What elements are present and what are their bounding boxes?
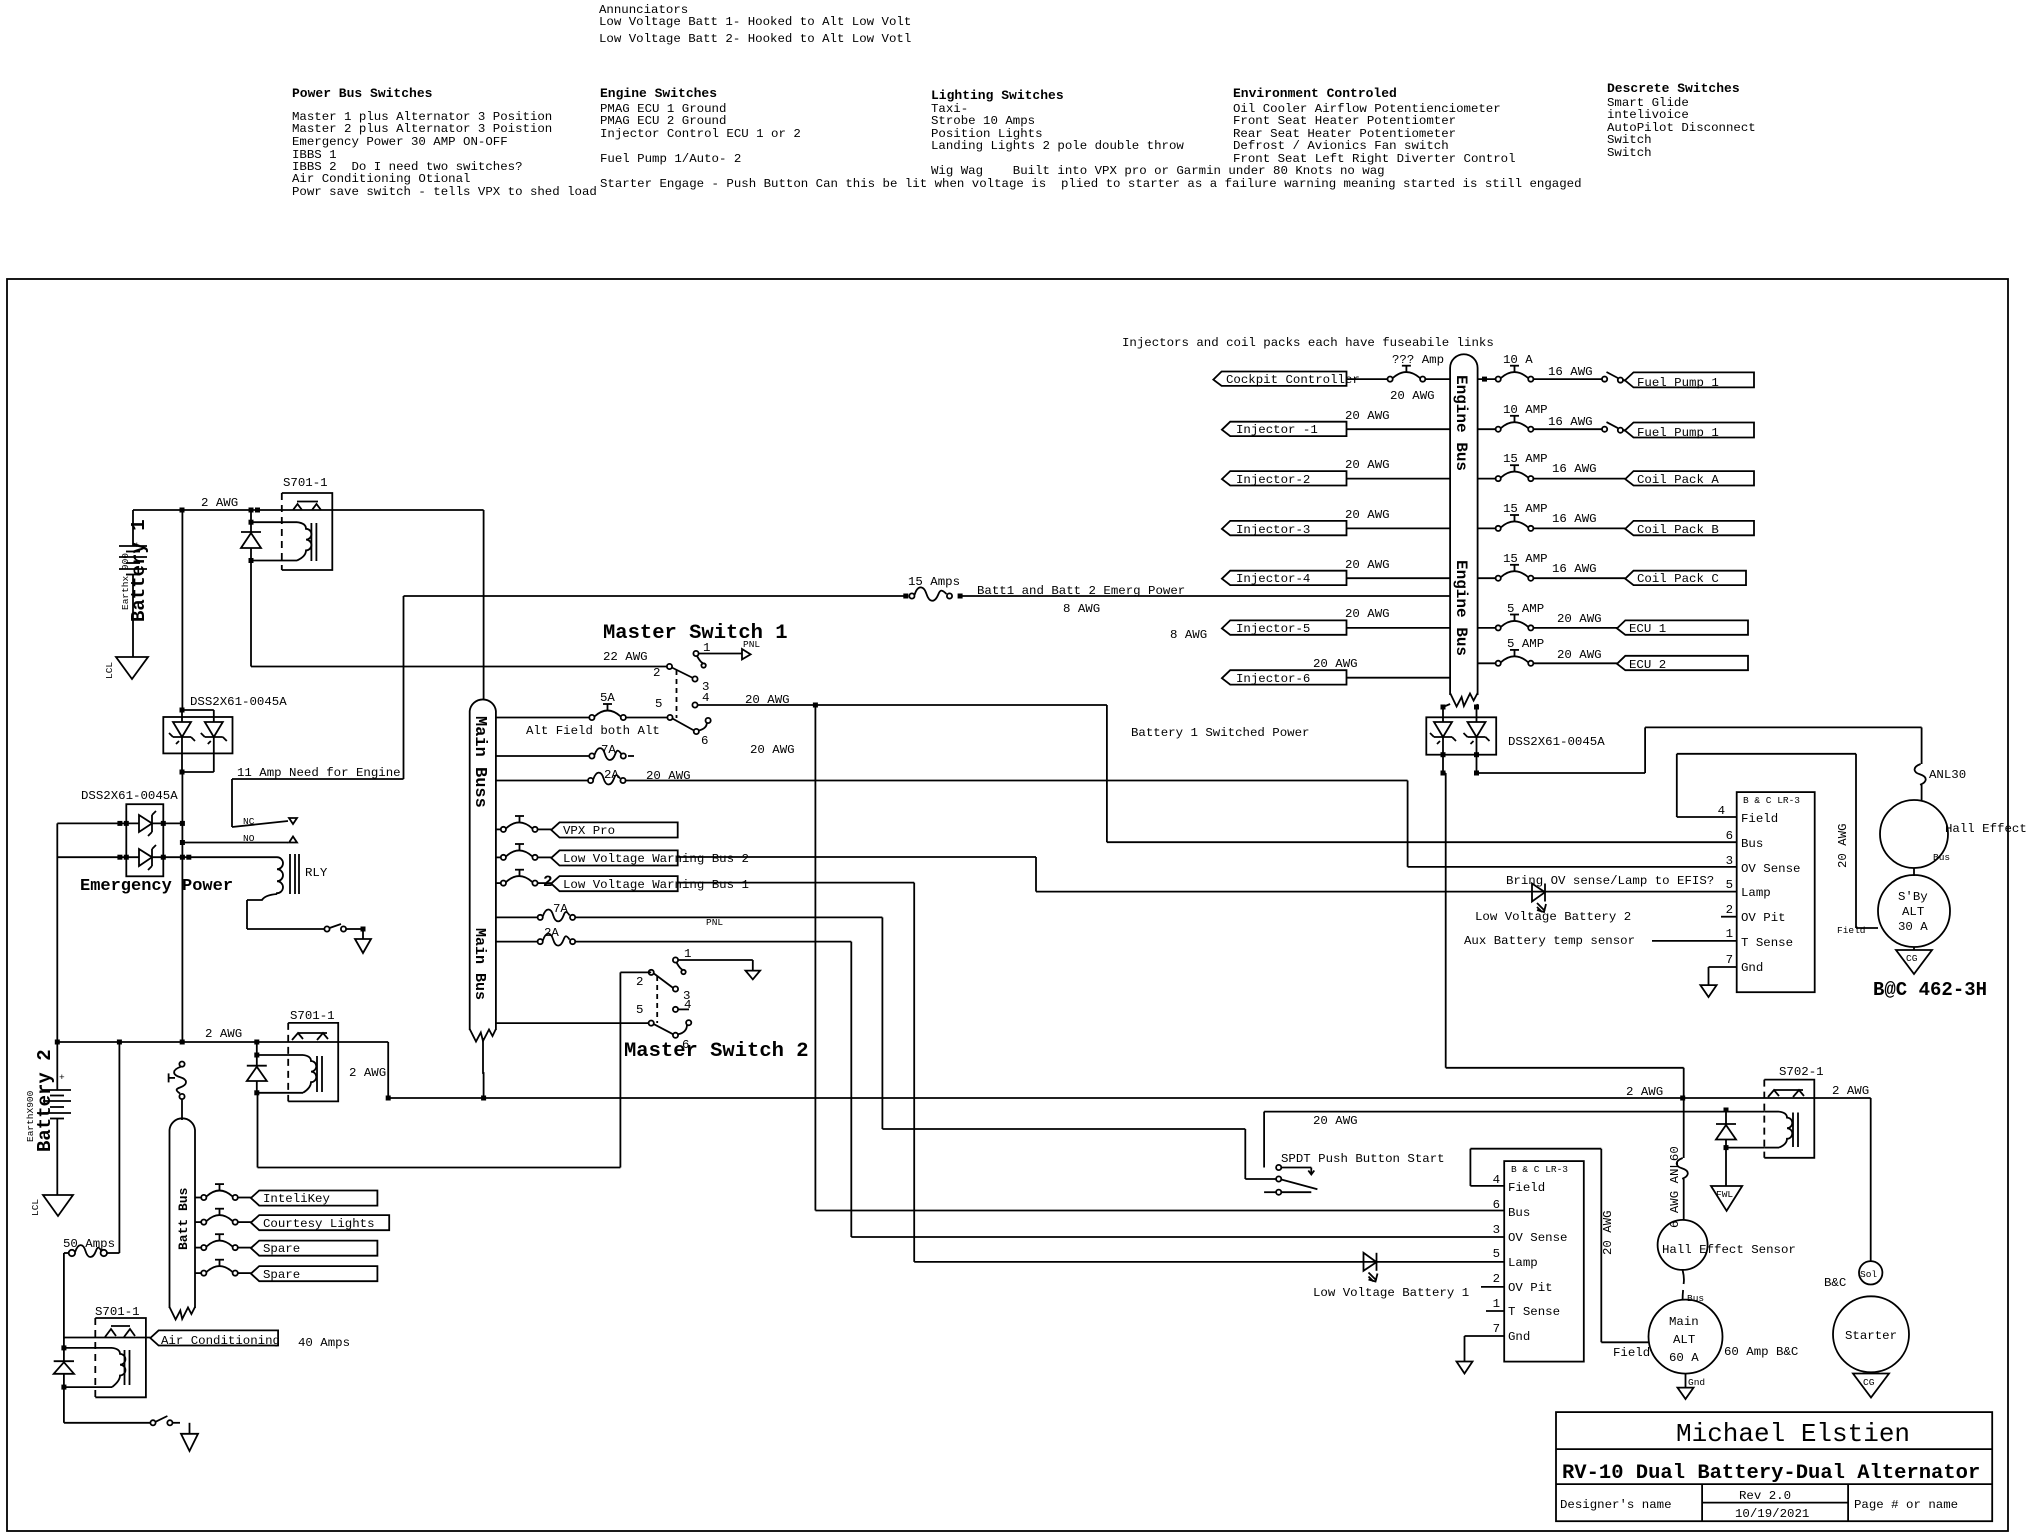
wire Main Buss top feed bbox=[483, 510, 485, 700]
svg-text:5: 5 bbox=[1493, 1247, 1500, 1261]
svg-text:5 AMP: 5 AMP bbox=[1507, 602, 1544, 616]
svg-text:Low Voltage Warning Bus 1: Low Voltage Warning Bus 1 bbox=[563, 878, 749, 892]
svg-text:10 A: 10 A bbox=[1503, 353, 1533, 367]
regulator U1 B & C LR-3 (upper) bbox=[1652, 792, 1815, 992]
flag Spare 2 bbox=[251, 1266, 378, 1282]
wire LR-3 #1 Field to S'By ALT Field bbox=[1677, 754, 1878, 928]
note column Descrete Switches bbox=[1607, 81, 1756, 160]
contactor S702-1 bbox=[1726, 1065, 1869, 1158]
note column Environment Controled bbox=[1233, 86, 1516, 166]
svg-text:Front Seat Left Right Diverter: Front Seat Left Right Diverter Control bbox=[1233, 152, 1516, 166]
flag Courtesy Lights bbox=[251, 1215, 389, 1231]
svg-text:Injector -1: Injector -1 bbox=[1236, 423, 1318, 437]
diode FWL (across S702 coil) bbox=[1716, 1108, 1736, 1187]
svg-text:Low Voltage Warning Bus 2: Low Voltage Warning Bus 2 bbox=[563, 852, 749, 866]
svg-text:Field: Field bbox=[1508, 1181, 1545, 1195]
svg-text:Hall Effect Sensor: Hall Effect Sensor bbox=[1662, 1243, 1796, 1257]
svg-text:Wig Wag Built into VPX pro: Wig Wag Built into VPX pro or Garmin und… bbox=[931, 164, 1385, 178]
svg-text:CG: CG bbox=[1906, 953, 1918, 964]
svg-text:Fuel Pump 1: Fuel Pump 1 bbox=[1637, 426, 1719, 440]
svg-text:6: 6 bbox=[682, 1038, 689, 1052]
wire Hall to S'By ALT Bus bbox=[1914, 852, 1950, 876]
svg-text:6: 6 bbox=[1726, 829, 1733, 843]
svg-text:+: + bbox=[59, 1072, 65, 1083]
svg-text:Low Voltage Batt 1- Hooked to: Low Voltage Batt 1- Hooked to Alt Low Vo… bbox=[599, 15, 911, 29]
svg-text:20 AWG: 20 AWG bbox=[1557, 612, 1602, 626]
svg-text:2 AWG: 2 AWG bbox=[1626, 1085, 1663, 1099]
svg-text:Environment Controled: Environment Controled bbox=[1233, 86, 1397, 101]
svg-text:Field: Field bbox=[1741, 812, 1778, 826]
svg-text:4: 4 bbox=[1718, 804, 1725, 818]
svg-text:20 AWG: 20 AWG bbox=[1345, 508, 1390, 522]
starter solenoid Sol bbox=[1824, 1261, 1882, 1290]
svg-text:20 AWG: 20 AWG bbox=[1557, 648, 1602, 662]
svg-text:2: 2 bbox=[1493, 1272, 1500, 1286]
svg-text:20 AWG: 20 AWG bbox=[1313, 657, 1358, 671]
svg-text:Bus: Bus bbox=[1741, 837, 1763, 851]
svg-text:Air Conditioning Otional: Air Conditioning Otional bbox=[292, 172, 470, 186]
flag Low Voltage Warning Bus 2 bbox=[551, 850, 749, 866]
breaker Spare 1 bbox=[195, 1234, 251, 1250]
svg-text:5A: 5A bbox=[600, 691, 615, 705]
flag Spare 1 bbox=[251, 1241, 378, 1256]
svg-text:Spare: Spare bbox=[263, 1242, 300, 1256]
wire SPDT to S702 coil bbox=[1264, 1112, 1764, 1168]
svg-text:Lighting Switches: Lighting Switches bbox=[931, 88, 1064, 103]
svg-text:CG: CG bbox=[1863, 1377, 1875, 1388]
ground LCL under battery 2 bbox=[30, 1195, 73, 1216]
wire LVW2 to upper LR-3 Lamp bbox=[678, 857, 1737, 892]
svg-text:2: 2 bbox=[543, 873, 553, 891]
diode across S701-1 (battery 2) coil bbox=[247, 1042, 267, 1095]
wire battery1 bus riser bbox=[181, 510, 183, 710]
svg-text:Injector Control ECU 1 or 2: Injector Control ECU 1 or 2 bbox=[600, 127, 801, 141]
ground (Main ALT) bbox=[1678, 1374, 1706, 1399]
ground (RLY switch) bbox=[355, 929, 371, 953]
svg-text:Alt Field both Alt: Alt Field both Alt bbox=[526, 724, 660, 738]
svg-text:B & C LR-3: B & C LR-3 bbox=[1743, 795, 1800, 806]
relay contact NC/NO (emergency power relay) bbox=[180, 816, 297, 845]
wire 22 AWG to Master Switch 1 pin2 bbox=[251, 650, 667, 667]
svg-text:InteliKey: InteliKey bbox=[263, 1192, 330, 1206]
svg-text:16 AWG: 16 AWG bbox=[1548, 415, 1593, 429]
diode across S701-1 coil bbox=[241, 510, 261, 667]
fuse 2A (to OV Sense upper) bbox=[496, 768, 1736, 867]
svg-text:Coil Pack B: Coil Pack B bbox=[1637, 523, 1719, 537]
svg-text:3: 3 bbox=[1726, 854, 1733, 868]
svg-text:Batt Bus: Batt Bus bbox=[176, 1187, 191, 1250]
ground FWL bbox=[1711, 1186, 1742, 1211]
svg-text:2 AWG: 2 AWG bbox=[349, 1066, 386, 1080]
svg-text:Battery 1 Switched Power: Battery 1 Switched Power bbox=[1131, 726, 1309, 740]
svg-text:Engine Bus: Engine Bus bbox=[1452, 375, 1470, 471]
svg-text:Injector-6: Injector-6 bbox=[1236, 672, 1310, 686]
flag Injector-2 bbox=[1222, 458, 1450, 487]
svg-text:7: 7 bbox=[1493, 1322, 1500, 1336]
zener pair DSS2X61-0045A (battery 1 feed) bbox=[163, 695, 287, 775]
breaker Low Voltage Warning Bus 1 bbox=[496, 870, 553, 891]
svg-text:4: 4 bbox=[702, 691, 709, 705]
breaker 5 AMP / flag ECU 2 bbox=[1478, 637, 1748, 672]
svg-text:Gnd: Gnd bbox=[1741, 961, 1763, 975]
svg-text:7A: 7A bbox=[553, 902, 568, 916]
svg-text:Injector-3: Injector-3 bbox=[1236, 523, 1310, 537]
svg-text:Front Seat Heater Potentiomter: Front Seat Heater Potentiomter bbox=[1233, 114, 1456, 128]
fuse 50 Amps bbox=[63, 1042, 119, 1339]
svg-text:5 AMP: 5 AMP bbox=[1507, 637, 1544, 651]
title block bbox=[1556, 1412, 1992, 1521]
wire MS1 pin4 to LR-3 lower Bus bbox=[815, 705, 1504, 1211]
svg-text:5: 5 bbox=[1726, 878, 1733, 892]
svg-text:10/19/2021: 10/19/2021 bbox=[1735, 1507, 1809, 1521]
flag Air Conditioning bbox=[150, 1330, 350, 1350]
breaker Spare 2 bbox=[195, 1260, 251, 1276]
Hall Effect sensor (standby) bbox=[1880, 800, 2027, 868]
svg-text:Coil Pack A: Coil Pack A bbox=[1637, 473, 1719, 487]
svg-text:RLY: RLY bbox=[305, 866, 328, 880]
svg-text:10 AMP: 10 AMP bbox=[1503, 403, 1548, 417]
svg-text:Switch: Switch bbox=[1607, 133, 1652, 147]
flag Injector-4 bbox=[1222, 558, 1450, 586]
svg-text:Michael Elstien: Michael Elstien bbox=[1676, 1419, 1910, 1449]
switch to ground (RLY) bbox=[247, 924, 366, 932]
svg-text:2 AWG: 2 AWG bbox=[201, 496, 238, 510]
svg-text:40 Amps: 40 Amps bbox=[298, 1336, 350, 1350]
svg-text:Power Bus Switches: Power Bus Switches bbox=[292, 86, 433, 101]
svg-text:LCL: LCL bbox=[30, 1199, 41, 1216]
svg-text:Battery 1: Battery 1 bbox=[128, 519, 150, 622]
svg-text:2A: 2A bbox=[604, 768, 619, 782]
svg-text:B & C LR-3: B & C LR-3 bbox=[1511, 1164, 1568, 1175]
wire LVW1 to lower LR-3 Lamp bbox=[678, 883, 1504, 1262]
svg-text:B&C: B&C bbox=[1824, 1276, 1846, 1290]
svg-text:2: 2 bbox=[1726, 903, 1733, 917]
wire Main Bus to MS2 pin5 bbox=[496, 1022, 649, 1024]
svg-text:Master Switch 2: Master Switch 2 bbox=[624, 1040, 809, 1063]
SPDT Push Button Start bbox=[1264, 1114, 1444, 1195]
svg-text:16 AWG: 16 AWG bbox=[1552, 462, 1597, 476]
svg-text:20 AWG: 20 AWG bbox=[1313, 1114, 1358, 1128]
svg-text:ECU 2: ECU 2 bbox=[1629, 658, 1666, 672]
svg-text:Cockpit Controller: Cockpit Controller bbox=[1226, 373, 1360, 387]
zener pair DSS2X61-0045A (engine bus) bbox=[1426, 704, 1605, 776]
svg-text:Aux Battery temp sensor: Aux Battery temp sensor bbox=[1464, 934, 1635, 948]
ground CG (starter) bbox=[1853, 1374, 1889, 1398]
svg-text:Starter: Starter bbox=[1845, 1329, 1897, 1343]
svg-text:22 AWG: 22 AWG bbox=[603, 650, 648, 664]
svg-text:B@C 462-3H: B@C 462-3H bbox=[1873, 979, 1987, 1001]
svg-text:Landing Lights 2 pole double t: Landing Lights 2 pole double throw bbox=[931, 139, 1184, 153]
svg-text:intelivoice: intelivoice bbox=[1607, 108, 1689, 122]
svg-text:Page # or name: Page # or name bbox=[1854, 1498, 1958, 1512]
svg-text:OV Pit: OV Pit bbox=[1508, 1281, 1553, 1295]
svg-text:1: 1 bbox=[1726, 927, 1733, 941]
Master Switch 2 pins bbox=[636, 947, 760, 1052]
svg-text:PNL: PNL bbox=[706, 917, 723, 928]
svg-text:6 AWG ANL60: 6 AWG ANL60 bbox=[1668, 1146, 1682, 1228]
svg-text:7A: 7A bbox=[601, 743, 616, 757]
breaker InteliKey bbox=[195, 1184, 251, 1200]
svg-text:S701-1: S701-1 bbox=[290, 1009, 335, 1023]
svg-text:T Sense: T Sense bbox=[1741, 936, 1793, 950]
svg-text:2A: 2A bbox=[544, 926, 559, 940]
breaker Courtesy Lights bbox=[195, 1209, 251, 1225]
svg-text:RV-10 Dual Battery-Dual Altern: RV-10 Dual Battery-Dual Alternator bbox=[1562, 1462, 1980, 1485]
svg-text:Fuel Pump 1/Auto- 2: Fuel Pump 1/Auto- 2 bbox=[600, 152, 741, 166]
svg-text:Designer's name: Designer's name bbox=[1560, 1498, 1672, 1512]
fuse 7A (dead-end) bbox=[496, 743, 634, 760]
Engine Bus bus bar bbox=[1450, 354, 1478, 706]
ground (upper LR-3) bbox=[1700, 967, 1736, 997]
ground LCL under battery 1 bbox=[104, 657, 148, 679]
svg-text:16 AWG: 16 AWG bbox=[1552, 562, 1597, 576]
svg-text:OV Sense: OV Sense bbox=[1508, 1231, 1568, 1245]
svg-text:Bring OV sense/Lamp to EFIS?: Bring OV sense/Lamp to EFIS? bbox=[1506, 874, 1714, 888]
wire Hall to Main ALT Bus bbox=[1683, 1270, 1705, 1304]
flag VPX Pro bbox=[551, 822, 678, 838]
svg-text:DSS2X61-0045A: DSS2X61-0045A bbox=[1508, 735, 1605, 749]
breaker 10 AMP / switch / flag Fuel Pump 1 (2) bbox=[1478, 403, 1754, 440]
flag Cockpit Controller bbox=[1213, 372, 1360, 388]
svg-text:Injectors and coil packs each: Injectors and coil packs each have fusea… bbox=[1122, 336, 1494, 350]
svg-text:3: 3 bbox=[1493, 1223, 1500, 1237]
wire battery2 contactor output to starter contactor (2 AWG) bbox=[386, 1042, 1765, 1101]
svg-text:11 Amp Need for Engine: 11 Amp Need for Engine bbox=[237, 766, 401, 780]
svg-text:DSS2X61-0045A: DSS2X61-0045A bbox=[190, 695, 287, 709]
svg-text:Batt1 and Batt 2 Emerg Power: Batt1 and Batt 2 Emerg Power bbox=[977, 584, 1185, 598]
svg-text:Main: Main bbox=[1669, 1315, 1699, 1329]
svg-text:Main Bus: Main Bus bbox=[471, 928, 488, 1000]
svg-text:60 Amp B&C: 60 Amp B&C bbox=[1724, 1345, 1798, 1359]
svg-text:15 AMP: 15 AMP bbox=[1503, 552, 1548, 566]
svg-text:VPX Pro: VPX Pro bbox=[563, 824, 615, 838]
svg-text:OV Sense: OV Sense bbox=[1741, 862, 1801, 876]
svg-text:Air Conditioning: Air Conditioning bbox=[161, 1334, 280, 1348]
regulator U2 B & C LR-3 (lower) bbox=[1481, 1161, 1584, 1362]
LED low voltage battery 2 bbox=[1464, 874, 1714, 948]
svg-text:S701-1: S701-1 bbox=[283, 476, 328, 490]
svg-text:Master 2 plus Alternator 3 Poi: Master 2 plus Alternator 3 Poistion bbox=[292, 122, 552, 136]
svg-text:1: 1 bbox=[684, 947, 691, 961]
wire Main ALT B-lead to bus bbox=[1443, 773, 1684, 1158]
svg-text:Descrete Switches: Descrete Switches bbox=[1607, 81, 1740, 96]
flag Injector -1 bbox=[1222, 409, 1450, 437]
breaker ??? Amp bbox=[1347, 353, 1451, 403]
flag Injector-6 bbox=[1222, 657, 1450, 686]
breaker Batt Bus feed bbox=[169, 1062, 186, 1121]
svg-text:2 AWG: 2 AWG bbox=[205, 1027, 242, 1041]
ground (AC switch) bbox=[181, 1423, 198, 1451]
breaker Low Voltage Warning Bus 2 bbox=[496, 844, 551, 860]
svg-text:Field: Field bbox=[1837, 925, 1866, 936]
svg-text:Lamp: Lamp bbox=[1741, 886, 1771, 900]
svg-text:SPDT Push Button Start: SPDT Push Button Start bbox=[1281, 1152, 1445, 1166]
svg-text:5: 5 bbox=[655, 697, 662, 711]
flag InteliKey bbox=[251, 1191, 378, 1207]
svg-text:20 AWG: 20 AWG bbox=[1836, 823, 1850, 868]
Main Buss bus bar bbox=[470, 699, 496, 1098]
Hall Effect Sensor (main) bbox=[1658, 1220, 1796, 1270]
wire battery2 bus (2 AWG) bbox=[55, 1027, 388, 1045]
svg-text:Low Voltage Batt 2- Hooked to: Low Voltage Batt 2- Hooked to Alt Low Vo… bbox=[599, 32, 911, 46]
svg-text:S702-1: S702-1 bbox=[1779, 1065, 1824, 1079]
fuse ANL60 bbox=[1668, 1146, 1688, 1228]
ground (lower LR-3) bbox=[1457, 1336, 1505, 1374]
svg-text:DSS2X61-0045A: DSS2X61-0045A bbox=[81, 789, 178, 803]
svg-text:20 AWG: 20 AWG bbox=[1345, 607, 1390, 621]
svg-text:Gnd: Gnd bbox=[1688, 1377, 1705, 1388]
svg-text:PMAG ECU 2 Ground: PMAG ECU 2 Ground bbox=[600, 114, 726, 128]
svg-text:Starter Engage - Push Button C: Starter Engage - Push Button Can this be… bbox=[600, 177, 1582, 191]
flag Low Voltage Warning Bus 1 bbox=[551, 876, 749, 892]
LED low voltage battery 1 bbox=[1313, 1253, 1469, 1300]
svg-text:ECU 1: ECU 1 bbox=[1629, 622, 1666, 636]
fuse ANL30 bbox=[1915, 764, 1967, 800]
svg-text:Engine Switches: Engine Switches bbox=[600, 86, 717, 101]
svg-text:Powr save switch - tells VPX t: Powr save switch - tells VPX to shed loa… bbox=[292, 185, 597, 199]
breaker 5 AMP / flag ECU 1 bbox=[1478, 602, 1748, 636]
svg-text:Strobe 10 Amps: Strobe 10 Amps bbox=[931, 114, 1035, 128]
svg-text:Rev 2.0: Rev 2.0 bbox=[1739, 1489, 1791, 1503]
svg-text:20 AWG: 20 AWG bbox=[745, 693, 790, 707]
breaker 15 AMP / flag Coil Pack B bbox=[1478, 502, 1754, 537]
svg-text:LCL: LCL bbox=[104, 662, 115, 679]
svg-text:4: 4 bbox=[1493, 1173, 1500, 1187]
svg-text:ALT: ALT bbox=[1902, 905, 1924, 919]
svg-text:5: 5 bbox=[636, 1003, 643, 1017]
svg-text:T Sense: T Sense bbox=[1508, 1305, 1560, 1319]
starter M1 bbox=[1833, 1296, 1909, 1372]
svg-text:50 Amps: 50 Amps bbox=[63, 1237, 115, 1251]
relay RLY bbox=[247, 854, 328, 929]
svg-text:PNL: PNL bbox=[743, 639, 760, 650]
svg-text:8 AWG: 8 AWG bbox=[1170, 628, 1207, 642]
fuse 2A (to lower LR-3 OV Sense) bbox=[496, 926, 1504, 1237]
svg-text:16 AWG: 16 AWG bbox=[1548, 365, 1593, 379]
svg-text:Emergency Power 30 AMP ON-OFF: Emergency Power 30 AMP ON-OFF bbox=[292, 135, 508, 149]
svg-text:ANL30: ANL30 bbox=[1929, 768, 1966, 782]
svg-text:Fuel Pump 1: Fuel Pump 1 bbox=[1637, 376, 1719, 390]
svg-text:7: 7 bbox=[1726, 953, 1733, 967]
svg-text:Engine Bus: Engine Bus bbox=[1452, 560, 1470, 656]
svg-text:S'By: S'By bbox=[1898, 890, 1928, 904]
wire battery2 positive riser bbox=[56, 823, 58, 1042]
annunciator notes bbox=[599, 3, 911, 46]
note column Lighting Switches bbox=[931, 88, 1385, 178]
ground CG (S'By ALT) bbox=[1896, 947, 1932, 974]
switch to ground (AC) bbox=[64, 1416, 180, 1425]
note column Power Bus Switches bbox=[292, 86, 597, 199]
svg-text:Defrost / Avionics Fan switch: Defrost / Avionics Fan switch bbox=[1233, 139, 1449, 153]
svg-text:Bus: Bus bbox=[1933, 852, 1950, 863]
svg-text:15 Amps: 15 Amps bbox=[908, 575, 960, 589]
svg-text:Switch: Switch bbox=[1607, 146, 1652, 160]
Batt Bus bus bar bbox=[170, 1118, 196, 1319]
contactor S701-1 (battery 2) bbox=[257, 1009, 386, 1101]
svg-text:??? Amp: ??? Amp bbox=[1392, 353, 1444, 367]
svg-text:2 AWG: 2 AWG bbox=[1832, 1084, 1869, 1098]
svg-text:ALT: ALT bbox=[1673, 1333, 1695, 1347]
svg-text:2: 2 bbox=[636, 975, 643, 989]
svg-text:20 AWG: 20 AWG bbox=[1345, 409, 1390, 423]
svg-text:Main Buss: Main Buss bbox=[470, 716, 489, 808]
wire Batt1 and Batt 2 Emerg Power (8 AWG) bbox=[404, 575, 1451, 642]
svg-text:1: 1 bbox=[1493, 1297, 1500, 1311]
contactor S701-1 (battery 1) bbox=[251, 476, 332, 570]
wire Battery 1 Switched Power bbox=[1107, 705, 1736, 842]
battery B2 (EarthX900) bbox=[25, 1042, 71, 1195]
flag Injector-3 bbox=[1222, 508, 1450, 537]
breaker 15 AMP / flag Coil Pack C bbox=[1478, 552, 1746, 586]
svg-text:Lamp: Lamp bbox=[1508, 1256, 1538, 1270]
wire lower LR-3 Field to Main ALT Field bbox=[1470, 1149, 1650, 1360]
svg-text:15 AMP: 15 AMP bbox=[1503, 452, 1548, 466]
svg-text:60 A: 60 A bbox=[1669, 1351, 1699, 1365]
svg-text:8 AWG: 8 AWG bbox=[1063, 602, 1100, 616]
wire PNL to SPDT start button bbox=[575, 917, 1276, 1179]
alternator S'By ALT 30 A bbox=[1837, 875, 1950, 947]
wire battery1 to contactor and Main Buss feed (2 AWG) bbox=[133, 496, 484, 513]
alternator Main ALT 60 A bbox=[1649, 1300, 1799, 1374]
wire 11 Amp Need for Engine bbox=[232, 596, 404, 827]
svg-text:30 A: 30 A bbox=[1898, 920, 1928, 934]
svg-text:Bus: Bus bbox=[1508, 1206, 1530, 1220]
contactor S701-1 (air conditioning) bbox=[64, 1305, 150, 1397]
breaker 5A (Alt Field) bbox=[496, 691, 668, 738]
svg-text:6: 6 bbox=[1493, 1198, 1500, 1212]
svg-text:Field: Field bbox=[1613, 1346, 1650, 1360]
svg-text:Low Voltage Battery 2: Low Voltage Battery 2 bbox=[1475, 910, 1631, 924]
svg-text:Emergency Power: Emergency Power bbox=[80, 877, 233, 896]
svg-text:20 AWG: 20 AWG bbox=[750, 743, 795, 757]
wire S'By ALT B-lead (via ANL30) bbox=[1477, 727, 1922, 773]
svg-text:FWL: FWL bbox=[1716, 1189, 1733, 1200]
svg-text:20 AWG: 20 AWG bbox=[1345, 458, 1390, 472]
svg-text:Low Voltage Battery 1: Low Voltage Battery 1 bbox=[1313, 1286, 1469, 1300]
fuse 7A (PNL feed) bbox=[496, 902, 724, 928]
svg-text:OV Pit: OV Pit bbox=[1741, 911, 1786, 925]
battery B1 (Earthx 900) bbox=[119, 510, 150, 657]
svg-text:Injector-2: Injector-2 bbox=[1236, 473, 1310, 487]
svg-text:Injector-4: Injector-4 bbox=[1236, 572, 1310, 586]
svg-text:20 AWG: 20 AWG bbox=[1345, 558, 1390, 572]
svg-text:20 AWG: 20 AWG bbox=[1390, 389, 1435, 403]
diode across AC contactor coil bbox=[54, 1338, 74, 1423]
wire MS2 pin2 to battery2 contactor coil bbox=[258, 972, 652, 1167]
wire S702 output to starter (2 AWG) bbox=[1764, 1098, 1870, 1261]
svg-text:6: 6 bbox=[701, 734, 708, 748]
svg-text:Gnd: Gnd bbox=[1508, 1330, 1530, 1344]
flag Injector-5 bbox=[1222, 607, 1450, 636]
svg-text:Spare: Spare bbox=[263, 1268, 300, 1282]
zener pair DSS2X61-0045A (emergency power) bbox=[57, 789, 277, 876]
svg-text:Sol: Sol bbox=[1860, 1269, 1877, 1280]
svg-text:S701-1: S701-1 bbox=[95, 1305, 140, 1319]
Master Switch 1 pins bbox=[653, 639, 1107, 757]
breaker VPX Pro bbox=[496, 816, 551, 832]
svg-text:Hall Effect: Hall Effect bbox=[1945, 822, 2027, 836]
breaker 15 AMP / flag Coil Pack A bbox=[1478, 452, 1754, 487]
svg-text:20 AWG: 20 AWG bbox=[1601, 1210, 1615, 1255]
note column Engine Switches bbox=[600, 86, 1582, 191]
svg-text:16 AWG: 16 AWG bbox=[1552, 512, 1597, 526]
svg-text:Coil Pack C: Coil Pack C bbox=[1637, 572, 1719, 586]
breaker 10 A / switch / flag Fuel Pump 1 bbox=[1478, 353, 1754, 390]
svg-text:15 AMP: 15 AMP bbox=[1503, 502, 1548, 516]
svg-text:Injector-5: Injector-5 bbox=[1236, 622, 1310, 636]
svg-text:2: 2 bbox=[653, 666, 660, 680]
svg-text:Courtesy Lights: Courtesy Lights bbox=[263, 1217, 375, 1231]
